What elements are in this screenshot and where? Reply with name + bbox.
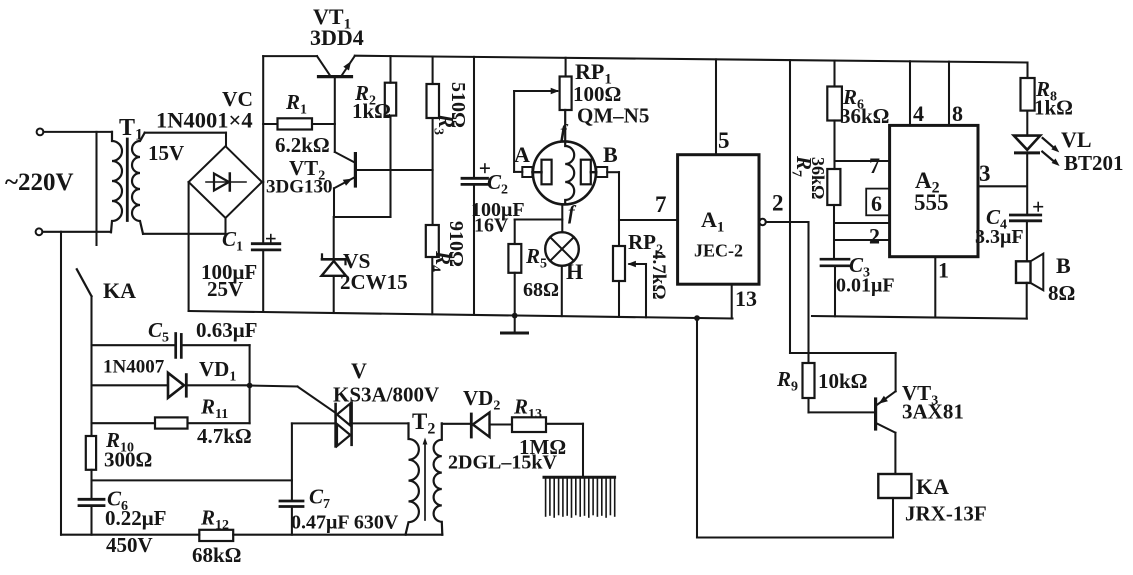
transistor VT1 xyxy=(317,56,330,75)
gas sensor QM-N5 xyxy=(533,141,596,204)
bridge rectifier VC xyxy=(189,146,262,218)
svg-text:510Ω: 510Ω xyxy=(447,82,469,128)
svg-text:1kΩ: 1kΩ xyxy=(1034,96,1073,120)
svg-text:2CW15: 2CW15 xyxy=(340,270,408,294)
svg-text:KA: KA xyxy=(916,474,949,499)
wire VT3 feed xyxy=(789,60,791,353)
wire R10 to C7 xyxy=(92,479,292,481)
svg-text:A: A xyxy=(514,142,530,167)
potentiometer RP1 xyxy=(565,58,567,77)
ground xyxy=(514,316,516,332)
wire triac right xyxy=(353,422,409,424)
svg-text:1: 1 xyxy=(938,258,949,283)
wire C5 right xyxy=(183,344,250,346)
svg-text:1N4007: 1N4007 xyxy=(103,357,165,378)
resistor R1 xyxy=(263,123,277,125)
svg-text:5: 5 xyxy=(718,128,730,153)
svg-text:3: 3 xyxy=(979,161,991,186)
ion emitter brush xyxy=(544,476,615,479)
wire R11 vertical xyxy=(249,386,251,424)
resistor R9 xyxy=(803,363,815,398)
wire bottom AC xyxy=(42,231,111,233)
svg-text:VL: VL xyxy=(1061,127,1092,152)
svg-text:450V: 450V xyxy=(106,533,153,557)
wire bottom rail mid xyxy=(233,534,442,536)
wire KA down xyxy=(90,296,92,436)
wire relay drop xyxy=(696,318,698,537)
wire lamp down xyxy=(561,266,563,316)
wire R13 right xyxy=(546,423,583,425)
svg-text:3AX81: 3AX81 xyxy=(902,400,964,424)
pin6 box xyxy=(866,189,889,216)
wire sensor bottom xyxy=(561,204,563,232)
svg-text:3DG130: 3DG130 xyxy=(266,177,333,198)
resistor R8 xyxy=(1026,63,1028,79)
capacitor C7 xyxy=(291,423,293,501)
resistor R12 xyxy=(199,530,233,541)
resistor R4 xyxy=(426,225,439,257)
wire VT2 emitter down xyxy=(333,188,335,217)
resistor R6 xyxy=(827,87,842,121)
svg-text:555: 555 xyxy=(914,190,949,215)
terminal J2 (~220V neutral) xyxy=(36,228,43,235)
wire top AC xyxy=(43,131,112,133)
IC A1 xyxy=(678,155,759,285)
svg-text:H: H xyxy=(566,259,583,284)
wire bottom rail left xyxy=(61,534,199,536)
speaker B xyxy=(1016,261,1031,283)
terminal J1 (~220V line) xyxy=(37,129,44,136)
svg-text:1kΩ: 1kΩ xyxy=(352,99,391,123)
wire KA feed xyxy=(95,132,97,245)
wire secondary bottom xyxy=(143,233,226,235)
wire ground rail left xyxy=(189,311,733,319)
wire VD1 left xyxy=(92,384,169,386)
wire 555 pin1 xyxy=(934,257,936,318)
resistor R5 xyxy=(508,244,521,273)
svg-text:25V: 25V xyxy=(207,277,243,301)
potentiometer RP2 xyxy=(613,246,625,281)
wire +V rail vertical xyxy=(262,56,264,243)
capacitor C5 xyxy=(174,334,177,358)
wire AC neutral down xyxy=(60,232,62,535)
wire 555 pin6 xyxy=(835,222,890,224)
svg-text:8: 8 xyxy=(952,101,963,126)
wire VT3 base xyxy=(809,411,875,413)
wire R6-R7 xyxy=(833,121,835,170)
svg-text:B: B xyxy=(603,142,618,167)
wire bridge bottom lead xyxy=(224,218,226,234)
svg-text:2: 2 xyxy=(869,224,880,249)
wire 555 pin8 xyxy=(948,62,950,126)
IC A2 555 xyxy=(890,125,978,256)
wire VT2 base xyxy=(357,169,433,171)
junction VD1 node xyxy=(247,383,253,389)
LED VL xyxy=(1014,136,1040,150)
pin2 circle A1 xyxy=(759,219,765,225)
svg-text:16V: 16V xyxy=(474,215,509,237)
svg-text:68Ω: 68Ω xyxy=(523,279,559,301)
resistor R10 xyxy=(86,436,96,470)
wire VT3 collector xyxy=(894,433,896,474)
wire R7-C3 xyxy=(833,205,835,259)
wire pin2 to R9 xyxy=(807,222,809,363)
wire 555 pin2 xyxy=(835,239,890,241)
svg-text:8Ω: 8Ω xyxy=(1048,281,1075,305)
zener VS xyxy=(333,217,335,258)
wire RP1 wiper down xyxy=(513,91,515,172)
capacitor C4 xyxy=(1010,214,1040,217)
wire emitter to R2 xyxy=(334,216,391,218)
wire B down xyxy=(1026,283,1028,319)
svg-text:68kΩ: 68kΩ xyxy=(192,543,242,567)
wire bridge negative lead xyxy=(188,182,190,311)
wire 555 pin3 xyxy=(978,185,1027,187)
wire ground rail right xyxy=(812,316,1027,319)
wire C5 branch xyxy=(92,344,175,346)
svg-text:3DD4: 3DD4 xyxy=(310,25,364,50)
svg-text:4.7kΩ: 4.7kΩ xyxy=(197,424,252,448)
relay coil KA xyxy=(878,474,911,498)
diode VD1 xyxy=(168,373,184,398)
wire VD1 right xyxy=(186,384,249,386)
svg-text:3.3μF: 3.3μF xyxy=(975,226,1024,248)
svg-text:0.47μF 630V: 0.47μF 630V xyxy=(291,512,399,534)
capacitor C2 xyxy=(473,57,475,178)
resistor R7 xyxy=(827,169,840,205)
svg-text:2: 2 xyxy=(772,191,784,216)
wire top rail right xyxy=(355,56,1027,63)
transistor VT3 xyxy=(874,399,877,429)
svg-text:1N4001×4: 1N4001×4 xyxy=(156,108,253,133)
svg-text:4.7kΩ: 4.7kΩ xyxy=(648,250,669,300)
svg-text:300Ω: 300Ω xyxy=(104,448,152,472)
wire sensor B down xyxy=(618,172,620,246)
resistor R2 xyxy=(389,56,391,83)
svg-text:10kΩ: 10kΩ xyxy=(818,369,868,393)
capacitor C1 xyxy=(252,242,279,245)
wire LED-C4 xyxy=(1026,155,1028,216)
svg-text:KA: KA xyxy=(103,278,136,303)
svg-text:0.63μF: 0.63μF xyxy=(196,318,257,342)
wire bridge top lead xyxy=(225,133,227,147)
svg-text:0.01μF: 0.01μF xyxy=(836,275,895,297)
capacitor C6 xyxy=(79,498,104,501)
switch KA xyxy=(77,269,92,296)
lamp H xyxy=(545,232,579,266)
wire VD2 to R13 xyxy=(490,423,513,425)
svg-text:100Ω: 100Ω xyxy=(573,82,621,106)
svg-text:7: 7 xyxy=(655,192,667,217)
wire gate feed xyxy=(250,386,298,387)
svg-text:BT201: BT201 xyxy=(1064,151,1124,175)
wire relay bottom xyxy=(892,498,894,538)
svg-text:4: 4 xyxy=(913,101,924,126)
svg-text:V: V xyxy=(351,358,367,383)
wire pin2 A1 xyxy=(766,221,809,223)
capacitor C3 xyxy=(821,258,849,261)
svg-text:910Ω: 910Ω xyxy=(445,221,467,267)
svg-text:QM–N5: QM–N5 xyxy=(577,104,649,128)
wire top rail left xyxy=(263,55,317,57)
wire triac left xyxy=(292,422,334,424)
svg-text:B: B xyxy=(1056,253,1071,278)
wire VT1 base down xyxy=(334,78,336,152)
svg-text:6.2kΩ: 6.2kΩ xyxy=(275,133,330,157)
wire pin5 xyxy=(715,59,717,154)
junction relay node xyxy=(694,315,700,321)
wire R5 branch xyxy=(515,218,563,220)
wire 555 pin4 xyxy=(909,61,911,125)
svg-text:~220V: ~220V xyxy=(5,169,74,196)
wire T2 to VD2 xyxy=(442,423,472,425)
wire pin7 xyxy=(619,219,678,221)
diode VD2 xyxy=(470,414,473,437)
transformer T1 xyxy=(111,132,122,232)
resistor R13 xyxy=(512,417,546,432)
wire C4-B xyxy=(1026,221,1028,261)
resistor R11 xyxy=(92,422,156,424)
svg-text:JRX-13F: JRX-13F xyxy=(905,502,987,526)
wire 555 pin7 xyxy=(835,160,890,162)
resistor R3 xyxy=(432,57,434,85)
wire R6 top xyxy=(833,61,835,87)
svg-text:13: 13 xyxy=(735,286,757,311)
triac V xyxy=(334,404,337,446)
svg-text:KS3A/800V: KS3A/800V xyxy=(333,383,439,407)
wire pin13 xyxy=(731,284,733,318)
svg-text:1MΩ: 1MΩ xyxy=(519,435,566,459)
svg-text:7: 7 xyxy=(869,153,880,178)
svg-text:36kΩ: 36kΩ xyxy=(808,157,828,199)
svg-text:0.22μF: 0.22μF xyxy=(105,506,166,530)
transistor VT2 xyxy=(335,152,355,162)
svg-text:36kΩ: 36kΩ xyxy=(840,104,890,128)
transformer T2 xyxy=(406,423,419,534)
svg-text:6: 6 xyxy=(871,191,882,216)
junction ground node xyxy=(512,313,518,319)
svg-text:15V: 15V xyxy=(148,141,184,165)
svg-text:JEC-2: JEC-2 xyxy=(694,241,743,261)
wire secondary top xyxy=(145,132,226,134)
